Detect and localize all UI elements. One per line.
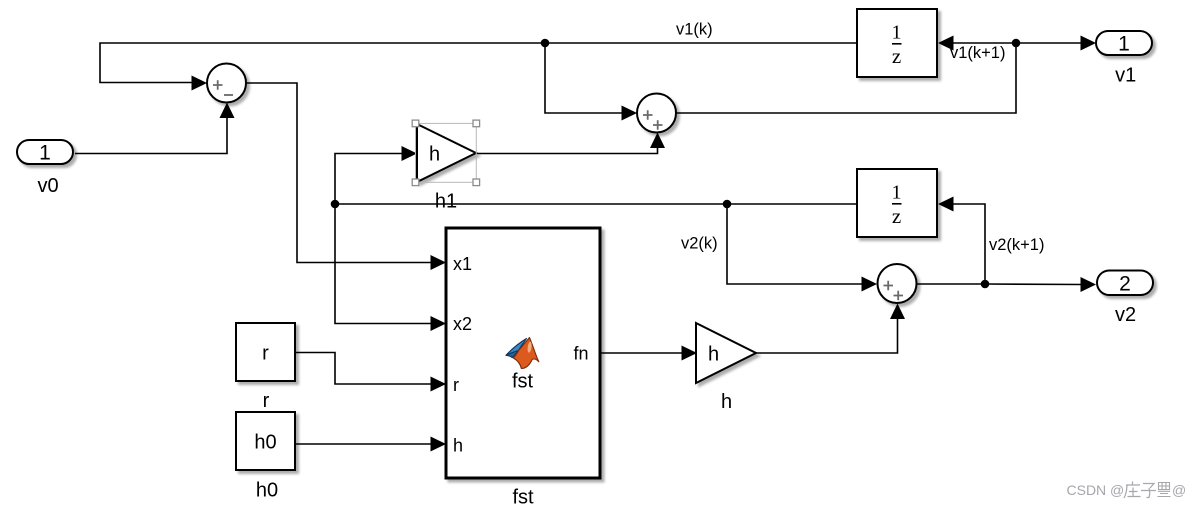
arrowhead into fst h: [431, 437, 447, 452]
unit delay block 1/z upper: [857, 9, 937, 77]
svg-text:fst: fst: [512, 487, 534, 508]
wire W12 v2(k) branch down to sum3 left: [727, 204, 863, 284]
arrowhead into gain1: [402, 146, 418, 161]
arrowhead into sum3 left: [862, 277, 878, 292]
wire W3 from inport v0 to sum1 bottom: [75, 117, 227, 154]
wire W7 sum2 output up to v1(k+1) node: [676, 43, 1016, 113]
svg-text:v2(k+1): v2(k+1): [989, 236, 1044, 254]
svg-text:v1: v1: [1115, 65, 1136, 87]
arrowhead into fst x1: [431, 255, 447, 270]
arrowhead into fst r: [431, 377, 447, 392]
svg-text:v1(k): v1(k): [676, 21, 713, 39]
svg-text:2: 2: [1119, 273, 1131, 296]
svg-text:fst: fst: [512, 371, 534, 393]
svg-text:h: h: [721, 391, 732, 413]
svg-text:1: 1: [892, 181, 902, 203]
svg-text:CSDN @: CSDN @: [1067, 482, 1125, 498]
svg-text:x1: x1: [453, 254, 472, 274]
svg-text:1: 1: [892, 21, 902, 43]
watermark CSDN: [1067, 482, 1187, 499]
svg-text:x2: x2: [453, 314, 472, 334]
svg-text:h1: h1: [435, 191, 457, 213]
unit delay block 1/z lower: [857, 169, 937, 237]
svg-text:r: r: [453, 375, 459, 395]
sum block Add3 (+ +): [878, 264, 917, 303]
junction node v2(k) left: [331, 200, 340, 209]
svg-text:v2(k): v2(k): [681, 235, 718, 253]
wire W17 sum3 output to v2(k+1) node: [916, 283, 985, 285]
selection frame of gain h1: [412, 120, 479, 186]
junction node v1(k+1): [1012, 39, 1021, 48]
outport 1 (v1): [1096, 31, 1152, 56]
wire W16 gain2 output to sum3 bottom: [756, 318, 898, 353]
svg-text:@: @: [1172, 482, 1186, 498]
junction node v2(k) right: [723, 200, 732, 209]
arrowhead into delay1 right: [938, 36, 954, 51]
svg-text:v0: v0: [37, 175, 58, 197]
constant block r: [236, 323, 295, 381]
wire W13 constant r to fst r: [295, 353, 432, 385]
svg-text:v1(k+1): v1(k+1): [950, 44, 1005, 62]
arrowhead into outport v2: [1081, 277, 1097, 292]
glyph mo: [1158, 483, 1171, 497]
outport 2 (v2): [1097, 271, 1153, 296]
svg-text:h: h: [708, 344, 719, 366]
wire W2 branch to sum2 left: [545, 43, 623, 113]
svg-text:h: h: [453, 436, 463, 456]
wire W1 feedback v1(k) from delay1 output to sum1: [100, 43, 857, 83]
wire W19 node to outport v2: [985, 283, 1082, 286]
svg-text:r: r: [263, 390, 270, 412]
sum block Add1 (+ -): [207, 64, 246, 103]
wire W11 branch down to fst x2: [335, 204, 432, 324]
arrowhead into outport v1: [1081, 36, 1097, 51]
glyph zhuang: [1124, 482, 1141, 499]
wire W9 node to outport v1: [1016, 42, 1082, 44]
gain h1 triangle: [417, 124, 476, 182]
wire W10 v2(k) feedback from delay2 output: [335, 203, 857, 205]
svg-text:z: z: [892, 204, 901, 228]
svg-text:h0: h0: [254, 432, 276, 454]
gain h triangle lower: [696, 323, 756, 383]
MATLAB membrane logo: [506, 338, 539, 369]
wire W18 node up to delay2 right input: [953, 204, 985, 284]
svg-text:h0: h0: [256, 480, 278, 502]
wire W5 v2(k) branch up to gain1 input: [335, 154, 403, 205]
sum block Add2 (+ +): [637, 94, 676, 133]
svg-text:1: 1: [39, 142, 51, 165]
wire W14 constant h0 to fst h: [295, 443, 432, 445]
junction node v1(k): [541, 39, 550, 48]
arrowhead into sum3 bottom: [890, 304, 905, 320]
svg-text:r: r: [262, 343, 269, 365]
inport 1 (v0): [17, 140, 73, 165]
wire W15 fst fn output to gain2: [600, 352, 683, 354]
arrowhead into sum1 bottom: [220, 103, 235, 119]
arrowhead into sum2 left: [622, 106, 638, 121]
junction node v2(k+1): [981, 280, 990, 289]
arrowhead into delay2 right: [938, 197, 954, 212]
glyph zi: [1141, 484, 1156, 498]
svg-text:v2: v2: [1115, 304, 1136, 326]
arrowhead into fst x2: [431, 316, 447, 331]
arrowhead into sum2 bottom: [650, 133, 665, 149]
MATLAB function block fst: [446, 228, 600, 478]
wire W8 node to delay1 right input: [953, 42, 1016, 44]
constant block h0: [236, 412, 295, 470]
arrowhead into gain2: [682, 346, 698, 361]
wire W6 gain1 output to sum2 bottom: [476, 147, 658, 154]
wire W4 sum1 output to fst x1: [246, 83, 432, 263]
arrowhead into sum1 left: [192, 76, 208, 91]
svg-text:1: 1: [1118, 33, 1130, 56]
svg-text:h: h: [429, 144, 440, 166]
svg-text:fn: fn: [573, 344, 588, 364]
svg-text:z: z: [892, 44, 901, 68]
